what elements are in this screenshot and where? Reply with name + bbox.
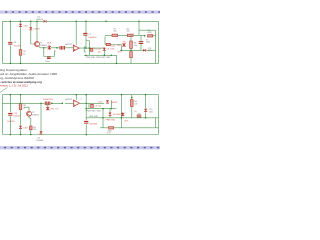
wire feedback loop bbox=[44, 48, 55, 57]
wire sense jog bbox=[84, 47, 86, 52]
transistor T2 bbox=[27, 111, 32, 116]
wire V- rail bbox=[3, 94, 159, 96]
resistor R2 bbox=[19, 50, 22, 56]
junction gndb-20 bbox=[20, 134, 22, 136]
resistor R8A bbox=[130, 41, 133, 48]
svg-text:100u/63V: 100u/63V bbox=[89, 123, 98, 125]
wire op-amp2 power pin bbox=[75, 95, 77, 100]
wire box left v bbox=[102, 118, 104, 128]
svg-text:4148: 4148 bbox=[116, 114, 120, 116]
trimmer R11 bbox=[46, 107, 49, 111]
reference D6 bbox=[30, 126, 33, 130]
wire R6 column bbox=[20, 95, 22, 135]
junction row-121 bbox=[121, 50, 123, 52]
junction rail-C2 bbox=[85, 21, 87, 23]
trimmer R4 bbox=[48, 46, 51, 50]
wire op-amp2 output bbox=[80, 102, 105, 104]
junction rail-139 bbox=[138, 21, 140, 23]
wire zener2 stub bbox=[103, 46, 105, 49]
junction div-b bbox=[56, 47, 58, 49]
wire row y35.3 bbox=[105, 34, 156, 37]
wire mid bus bbox=[84, 54, 116, 56]
wire C16 column bbox=[9, 95, 11, 135]
wire box right v bbox=[121, 118, 123, 128]
wire right border bottom panel bbox=[158, 95, 160, 135]
capacitor C5 bbox=[90, 48, 93, 52]
svg-text:1k: 1k bbox=[48, 45, 50, 47]
wire R8C column bbox=[131, 95, 133, 118]
wire sense link bbox=[105, 36, 122, 50]
capacitor C6 loop bbox=[47, 57, 51, 59]
junction rail-ref bbox=[30, 21, 32, 23]
junction row-144 bbox=[144, 35, 146, 37]
wire LED column bbox=[20, 21, 22, 63]
svg-text:sed on Jung/Didden, Audio Amat: sed on Jung/Didden, Audio Amateur 1995 bbox=[0, 72, 58, 76]
wire C2 column bbox=[85, 21, 87, 48]
junction bus2-103 bbox=[102, 117, 104, 119]
svg-text:1k: 1k bbox=[23, 53, 25, 55]
diode D1 bbox=[44, 20, 47, 23]
wire T2 down bbox=[29, 116, 31, 134]
wire jog bottom bbox=[88, 103, 90, 108]
wire T1 collector bbox=[36, 21, 38, 41]
capacitor C12 bbox=[45, 102, 47, 106]
svg-text:PWR GND: PWR GND bbox=[86, 57, 96, 59]
wire feedback tap vertical bbox=[86, 41, 89, 56]
wire R8A stub bbox=[130, 35, 132, 50]
svg-text:100n: 100n bbox=[149, 112, 153, 114]
zener D4 bbox=[103, 48, 106, 51]
svg-text:PWR GND: PWR GND bbox=[106, 120, 116, 122]
wire C7 stub bbox=[140, 36, 142, 51]
svg-text:2: 2 bbox=[55, 51, 56, 53]
junction gndb-10 bbox=[10, 134, 12, 136]
top ruler bar bbox=[0, 11, 160, 14]
decorative stroke (signature mark) bbox=[0, 88, 8, 93]
wire left border top panel bbox=[2, 21, 4, 63]
svg-text:GND: GND bbox=[96, 111, 101, 113]
junction bus2-121 bbox=[121, 117, 123, 119]
wire box bottom h bbox=[100, 127, 159, 129]
wire zener3 stub bbox=[109, 109, 111, 113]
svg-text:100n: 100n bbox=[148, 50, 152, 52]
capacitor C7 bbox=[139, 42, 144, 44]
capacitor C11 bbox=[84, 121, 88, 123]
junction bus-111 bbox=[111, 55, 113, 57]
wire R8B stub bbox=[130, 58, 132, 64]
svg-text:version 1.1 11 Jul 2011: version 1.1 11 Jul 2011 bbox=[0, 84, 29, 88]
svg-text:100n: 100n bbox=[111, 45, 115, 47]
svg-text:120uF/25V: 120uF/25V bbox=[43, 99, 53, 101]
junction gndb-31 bbox=[30, 134, 32, 136]
junction busb-111 bbox=[111, 108, 113, 110]
wire reference column bbox=[31, 21, 35, 44]
svg-text:1k: 1k bbox=[23, 107, 25, 109]
junction railb-145 bbox=[145, 94, 147, 96]
junction div-a bbox=[43, 47, 45, 49]
svg-text:7: 7 bbox=[81, 44, 82, 46]
diode D5 bbox=[143, 49, 146, 52]
diode D9 bbox=[144, 109, 147, 112]
junction railb-86 bbox=[85, 94, 87, 96]
junction railb-20 bbox=[20, 94, 22, 96]
junction bus2-145 bbox=[145, 117, 147, 119]
svg-text:AD797: AD797 bbox=[65, 98, 72, 101]
junction outb-86 bbox=[85, 103, 87, 105]
junction railb-10 bbox=[10, 94, 12, 96]
junction railb-131 bbox=[131, 97, 133, 99]
svg-text:D44H11: D44H11 bbox=[40, 45, 48, 47]
wire mid column bottom bbox=[85, 95, 87, 135]
wire left border bottom panel bbox=[2, 95, 4, 135]
svg-text:LED: LED bbox=[24, 26, 28, 28]
wire right bus y50.3 bbox=[120, 49, 156, 51]
svg-text:10u/25V: 10u/25V bbox=[7, 121, 15, 123]
wire bus bottom B bbox=[86, 117, 158, 119]
svg-text:100n: 100n bbox=[45, 61, 49, 63]
wire C8 column bbox=[9, 21, 11, 63]
junction rail-T1 bbox=[36, 21, 38, 23]
wire drop x103 bbox=[102, 109, 104, 118]
svg-text:2R2: 2R2 bbox=[117, 45, 120, 47]
wire trimmer stub bbox=[47, 103, 49, 106]
junction railb-121 bbox=[121, 94, 123, 96]
diode LED2 bbox=[19, 126, 22, 129]
wire rail-139 drop bbox=[138, 21, 140, 30]
transistor T1 bbox=[35, 42, 40, 47]
wire right border top panel bbox=[158, 21, 160, 63]
wire drop x111 bbox=[110, 100, 112, 108]
svg-text:D45H11: D45H11 bbox=[32, 115, 40, 117]
svg-text:100n: 100n bbox=[98, 102, 102, 104]
junction busb-103 bbox=[102, 108, 104, 110]
wire op-amp output bbox=[79, 47, 104, 49]
svg-text:100n: 100n bbox=[146, 42, 150, 44]
svg-text:20k: 20k bbox=[127, 31, 130, 33]
resistor R9 bbox=[112, 34, 118, 36]
svg-text:1%: 1% bbox=[55, 109, 58, 111]
junction bus-104 bbox=[104, 55, 106, 57]
capacitor C17 bbox=[137, 115, 142, 117]
svg-text:C9: C9 bbox=[134, 111, 136, 113]
op-amp IC2 AD797 bbox=[74, 100, 80, 107]
wire D9 column bbox=[145, 95, 147, 118]
resistor R6 bbox=[19, 104, 22, 110]
svg-text:16k: 16k bbox=[134, 45, 137, 47]
wire V+ rail bbox=[3, 20, 159, 22]
junction gnd-116 bbox=[116, 63, 118, 65]
junction gndb-86 bbox=[85, 134, 87, 136]
junction inb-52 bbox=[51, 103, 53, 105]
capacitor C13 bbox=[48, 102, 50, 106]
svg-text:x: x bbox=[118, 35, 119, 37]
svg-text:OUT-: OUT- bbox=[124, 120, 129, 122]
zener D3 bbox=[29, 27, 32, 30]
svg-text:1N4148: 1N4148 bbox=[111, 102, 118, 104]
svg-text:10u/25V: 10u/25V bbox=[13, 116, 21, 118]
junction bus-131 bbox=[130, 50, 132, 52]
wire zener2 tail bbox=[103, 51, 105, 55]
junction bus-86 bbox=[85, 55, 87, 57]
svg-text:329: 329 bbox=[33, 129, 36, 131]
capacitor C2 bbox=[83, 33, 87, 35]
wire ground rail top panel bbox=[3, 62, 159, 64]
svg-text:ng, Audiofyrene #2000: ng, Audiofyrene #2000 bbox=[0, 76, 35, 80]
wire D2 column bbox=[40, 103, 42, 131]
svg-text:OUT+: OUT+ bbox=[117, 51, 123, 53]
resistor R5t bbox=[127, 34, 133, 36]
wire bus drop bbox=[116, 55, 118, 63]
svg-text:100n: 100n bbox=[110, 48, 114, 50]
diode LED1 bbox=[19, 24, 22, 27]
wire bus bottom A bbox=[86, 108, 116, 110]
junction input-41 bbox=[40, 103, 42, 105]
capacitor C8 bbox=[8, 42, 12, 44]
wire input row bbox=[3, 102, 74, 104]
op-amp IC1 AD797 bbox=[73, 45, 79, 51]
svg-text:16k: 16k bbox=[134, 103, 137, 105]
wire zener3 tail bbox=[109, 116, 111, 118]
svg-text:1N4004: 1N4004 bbox=[36, 140, 44, 142]
svg-text:4: 4 bbox=[81, 98, 82, 100]
resistor R8C bbox=[131, 100, 134, 107]
resistor R4 sense2 bbox=[148, 35, 153, 37]
bottom ruler bar bbox=[0, 146, 160, 149]
resistor R7 sense bbox=[106, 43, 110, 45]
svg-text:39k: 39k bbox=[51, 109, 54, 111]
junction rail-C8 bbox=[10, 21, 12, 23]
junction gnd-R2 bbox=[20, 63, 22, 65]
junction tap-48 bbox=[89, 47, 91, 49]
wire C17 stub bbox=[138, 113, 140, 118]
trimmer P2 bbox=[121, 113, 124, 117]
diode D2 bbox=[40, 131, 43, 134]
svg-text:e articles at www.waltjung.org: e articles at www.waltjung.org bbox=[0, 80, 42, 84]
svg-text:PWR GND: PWR GND bbox=[96, 57, 106, 59]
svg-text:PWR GND: PWR GND bbox=[86, 111, 96, 113]
svg-text:0R22: 0R22 bbox=[148, 32, 153, 34]
svg-text:LED: LED bbox=[24, 128, 28, 130]
junction railb-opamp bbox=[76, 94, 78, 96]
wire y30 link bbox=[139, 30, 156, 63]
junction gnd-C8 bbox=[10, 63, 12, 65]
wire divider bus bbox=[40, 47, 73, 49]
svg-text:301: 301 bbox=[113, 31, 116, 33]
wire ground rail bottom panel bbox=[3, 134, 159, 136]
svg-text:rling Superregulator: rling Superregulator bbox=[0, 68, 27, 72]
svg-text:C8: C8 bbox=[107, 48, 109, 50]
zener D8 bbox=[109, 113, 112, 116]
svg-text:GND: GND bbox=[106, 57, 111, 59]
wire T1 emitter bbox=[39, 46, 41, 48]
svg-text:100u/35V: 100u/35V bbox=[88, 37, 97, 39]
wire op-amp power pin bbox=[75, 21, 77, 45]
junction out-86 bbox=[85, 47, 87, 49]
trimmer P1 bbox=[122, 43, 125, 47]
diode D10 bbox=[106, 100, 109, 103]
resistor R12 link bbox=[109, 127, 114, 129]
junction busb-86 bbox=[85, 108, 87, 110]
wire T2 base bbox=[24, 107, 29, 111]
svg-text:10n: 10n bbox=[98, 51, 101, 53]
wire drop x121 bottom bbox=[121, 95, 123, 118]
svg-text:R10: R10 bbox=[123, 42, 126, 44]
resistor R8B bbox=[130, 52, 133, 58]
wire box v 155 bbox=[155, 118, 157, 128]
junction rail-106 bbox=[105, 21, 107, 23]
capacitor C3b bbox=[63, 46, 64, 50]
capacitor C16 bbox=[8, 113, 12, 115]
junction inb-62 bbox=[62, 103, 64, 105]
junction rail-LED bbox=[20, 21, 22, 23]
junction rail-opamp bbox=[75, 21, 77, 23]
capacitor C15 bbox=[91, 104, 94, 108]
svg-text:AD797: AD797 bbox=[65, 43, 72, 46]
capacitor C3a bbox=[60, 46, 62, 50]
